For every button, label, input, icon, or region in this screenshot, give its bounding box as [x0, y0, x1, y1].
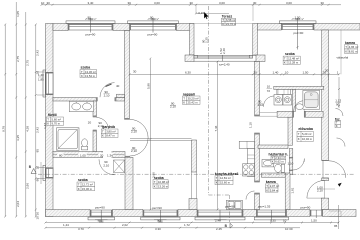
svg-text:85: 85	[35, 149, 39, 153]
svg-text:90: 90	[157, 218, 161, 222]
svg-text:13,26 m: 13,26 m	[158, 184, 169, 188]
svg-text:10: 10	[285, 70, 289, 74]
svg-text:30: 30	[47, 1, 51, 5]
kamra bottom window	[254, 210, 288, 221]
left wall	[46, 24, 54, 217]
svg-text:szoba: szoba	[78, 178, 88, 182]
svg-text:2,42: 2,42	[35, 127, 39, 133]
wall M kamra top y173	[261, 173, 285, 177]
svg-text:2,04: 2,04	[16, 201, 20, 207]
right wall	[322, 30, 329, 161]
svg-text:1,85: 1,85	[38, 77, 44, 81]
svg-text:21,70 m: 21,70 m	[226, 22, 237, 26]
svg-text:1,44: 1,44	[63, 223, 69, 227]
svg-text:30: 30	[190, 1, 194, 5]
hall opening threshold	[260, 112, 278, 116]
porch slab lines bottom right	[329, 211, 341, 217]
svg-text:40: 40	[116, 84, 120, 88]
svg-text:3,00: 3,00	[286, 1, 292, 5]
svg-text:13,52 m: 13,52 m	[85, 74, 96, 78]
left wall window upper	[43, 70, 53, 97]
svg-text:K: K	[222, 22, 224, 26]
svg-text:T: T	[345, 45, 347, 49]
door haztartasi	[293, 159, 305, 171]
furdo wc	[82, 139, 88, 150]
top dim line	[42, 4, 342, 6]
svg-text:válaszfal: válaszfal	[337, 56, 349, 60]
label bottom-mid szoba	[153, 176, 169, 189]
svg-text:5,84 m: 5,84 m	[270, 188, 279, 192]
svg-text:K: K	[272, 160, 274, 164]
interior vertical dim x217.5	[217, 61, 219, 211]
svg-text:2,40: 2,40	[222, 48, 226, 54]
svg-text:előszoba: előszoba	[298, 127, 313, 131]
terrace sliding door	[194, 55, 256, 61]
svg-text:30: 30	[254, 70, 258, 74]
door dim fractions	[88, 90, 176, 153]
kitchen counter dividers	[247, 141, 255, 159]
svg-text:12,28 m: 12,28 m	[288, 61, 299, 65]
svg-text:T: T	[78, 182, 80, 186]
sz= texts near windows	[86, 31, 311, 210]
bottom dim rows	[45, 222, 340, 229]
svg-text:30: 30	[133, 70, 137, 74]
wall L x289.3	[289, 149, 293, 175]
svg-text:10,02 m: 10,02 m	[302, 137, 313, 141]
svg-text:1,35: 1,35	[270, 218, 276, 222]
svg-text:1,10: 1,10	[288, 162, 294, 166]
svg-text:9,70 m: 9,70 m	[52, 122, 61, 126]
label top right cut room	[345, 41, 359, 54]
wall J x288	[288, 117, 293, 145]
svg-text:12,72 m²: 12,72 m²	[82, 182, 93, 186]
svg-text:2,96: 2,96	[25, 183, 29, 189]
top wall segments	[53, 24, 68, 31]
svg-text:10: 10	[41, 1, 45, 5]
svg-text:psz=90: psz=90	[225, 205, 235, 209]
svg-text:2,10: 2,10	[103, 164, 109, 168]
wall I utility/bath x292.5	[293, 89, 296, 111]
svg-text:90: 90	[88, 15, 92, 19]
window top W3	[279, 18, 316, 50]
svg-text:10: 10	[283, 218, 287, 222]
svg-text:6,30: 6,30	[185, 70, 191, 74]
kitchen counter	[239, 141, 254, 176]
svg-text:K: K	[81, 74, 83, 78]
svg-text:3,66: 3,66	[152, 172, 156, 178]
svg-text:15,60 m: 15,60 m	[220, 181, 231, 185]
svg-text:1,50: 1,50	[311, 218, 317, 222]
svg-text:25,42 m: 25,42 m	[188, 101, 199, 105]
svg-text:K: K	[47, 122, 49, 126]
svg-text:K: K	[284, 61, 286, 65]
left window outside dim marks	[37, 72, 45, 184]
svg-text:90: 90	[150, 15, 154, 19]
wall B szoba/furdo y97.5	[53, 98, 97, 102]
wall D dim texts	[58, 152, 114, 156]
svg-text:psz=90: psz=90	[294, 31, 304, 35]
svg-text:5,98: 5,98	[147, 83, 151, 89]
svg-text:10 30: 10 30	[285, 227, 293, 230]
svg-text:2,10: 2,10	[98, 124, 104, 128]
small black mark right	[338, 183, 342, 187]
label nappali	[183, 92, 201, 104]
door top-left szoba	[100, 83, 115, 98]
left wall window lower	[43, 165, 53, 180]
wall E thin double lines lower part	[130, 139, 197, 199]
label kamra	[265, 180, 279, 192]
kitchen bench bottom	[226, 200, 242, 209]
svg-text:2,45: 2,45	[216, 227, 222, 230]
svg-text:1,34: 1,34	[107, 153, 113, 157]
svg-text:1,50: 1,50	[303, 70, 309, 74]
door bottom-left szoba	[99, 159, 115, 175]
furdo double sink counter	[69, 101, 93, 111]
window top W2	[128, 18, 179, 33]
svg-text:90: 90	[98, 218, 102, 222]
wall F below terrace x254.5	[255, 62, 260, 117]
left dim lines	[4, 2, 37, 218]
door utility (from nappali nook)	[263, 96, 274, 107]
bottom kitchen window	[195, 210, 245, 221]
section marker bottom	[225, 223, 233, 228]
svg-text:30: 30	[321, 1, 325, 5]
label bottom-left szoba	[77, 178, 95, 191]
wall E konyha west x191.5	[192, 140, 197, 172]
svg-text:K: K	[78, 187, 80, 191]
door jamb blocks	[93, 98, 306, 195]
svg-text:10 30: 10 30	[35, 212, 39, 220]
haztartasi sink	[262, 160, 274, 167]
right side small arc mid	[337, 138, 346, 147]
svg-text:80: 80	[59, 153, 63, 157]
svg-text:2,10: 2,10	[258, 103, 264, 107]
svg-text:1,50: 1,50	[295, 15, 301, 19]
label konyha-etkezo	[215, 172, 239, 185]
svg-text:2,02: 2,02	[122, 223, 128, 227]
terrace bottom wall blocks	[185, 55, 194, 62]
wall D corridor bottom y151.5	[53, 152, 103, 158]
svg-text:psz=1,35: psz=1,35	[258, 205, 271, 209]
label right edge cut room	[335, 117, 341, 128]
svg-text:3,00: 3,00	[154, 1, 160, 5]
svg-text:1,40: 1,40	[273, 70, 279, 74]
svg-text:9,78: 9,78	[2, 126, 6, 132]
hall top wall y111.3	[277, 111, 294, 117]
svg-text:2,75: 2,75	[16, 56, 20, 62]
svg-text:T: T	[298, 132, 300, 136]
entrance door arc	[307, 197, 325, 199]
double doors wall A to nappali (semicircle swing)	[130, 119, 148, 156]
eaves line top right	[340, 30, 342, 74]
svg-text:20: 20	[88, 121, 92, 125]
label top-right szoba	[283, 52, 300, 64]
label top-left szoba	[80, 66, 97, 78]
right wall door upper arc	[336, 109, 344, 117]
right side dim lines	[329, 74, 340, 229]
svg-text:8,47 m: 8,47 m	[106, 134, 115, 138]
svg-text:10: 10	[267, 85, 271, 89]
svg-text:15,06 m: 15,06 m	[82, 187, 93, 191]
svg-text:K: K	[336, 124, 338, 128]
right wall door opening threshold	[322, 161, 329, 179]
wall N kamra east x285.2	[285, 173, 290, 210]
sofa / partition line nappali	[130, 138, 192, 140]
shaft near wall A	[114, 160, 125, 173]
svg-text:2,75: 2,75	[25, 60, 29, 66]
label gardrob	[101, 125, 118, 137]
svg-text:12,81 m²: 12,81 m²	[220, 176, 231, 180]
sink bathroom	[296, 104, 303, 110]
svg-text:5,20 m²: 5,20 m²	[302, 132, 312, 136]
svg-text:72: 72	[267, 89, 271, 93]
svg-text:2,40: 2,40	[215, 218, 221, 222]
svg-text:10,98 m²: 10,98 m²	[158, 180, 169, 184]
svg-text:6,62 m: 6,62 m	[275, 160, 284, 164]
label furdo	[47, 113, 64, 125]
svg-text:2,10: 2,10	[104, 93, 110, 97]
extension verticals from top line	[195, 5, 197, 14]
svg-text:2,42: 2,42	[35, 50, 39, 56]
svg-text:1,47: 1,47	[43, 123, 47, 129]
wall H top-right szoba bottom y86.3	[274, 86, 324, 89]
svg-text:psz=90: psz=90	[148, 32, 158, 36]
svg-text:psz=90: psz=90	[95, 205, 105, 209]
svg-text:K: K	[345, 49, 347, 53]
wall K haztartasi top y145	[258, 145, 288, 149]
haztartasi wc	[275, 164, 285, 172]
interior vertical dim x150	[149, 58, 151, 211]
svg-text:3,40: 3,40	[88, 1, 94, 5]
svg-text:3,70: 3,70	[78, 227, 84, 230]
bottom window B1	[88, 210, 115, 223]
svg-text:1,81: 1,81	[291, 187, 295, 193]
svg-text:4,65 m²: 4,65 m²	[349, 45, 359, 49]
svg-text:1,05: 1,05	[16, 11, 20, 17]
svg-text:3,30: 3,30	[155, 227, 161, 230]
label terasz	[222, 15, 237, 26]
terrace west wall	[190, 24, 195, 56]
svg-text:8,81 m: 8,81 m	[349, 49, 358, 53]
svg-text:7,46: 7,46	[214, 125, 218, 131]
label eloszoba	[297, 127, 313, 142]
svg-text:K: K	[183, 101, 185, 105]
svg-text:90: 90	[336, 103, 340, 107]
svg-text:4,38: 4,38	[25, 126, 29, 132]
wall A vertical x124.5	[125, 31, 130, 120]
door kamra	[246, 191, 255, 200]
svg-text:psz=90: psz=90	[301, 205, 311, 209]
svg-text:2,25: 2,25	[205, 37, 209, 43]
svg-text:30: 30	[253, 1, 257, 5]
svg-text:1,10: 1,10	[249, 122, 253, 128]
svg-text:psz=90: psz=90	[152, 206, 162, 210]
label haztartasi	[269, 153, 289, 164]
svg-text:sz=2,40: sz=2,40	[219, 63, 230, 67]
svg-text:30: 30	[325, 69, 329, 73]
svg-text:30: 30	[128, 1, 132, 5]
section marker left	[29, 165, 36, 173]
wall C furdo/gardrob x90.5	[93, 101, 97, 117]
bottom wall segments	[46, 210, 91, 217]
door furdo/gardrob	[97, 118, 109, 130]
svg-text:T: T	[154, 180, 156, 184]
bottom window B2	[141, 210, 180, 223]
svg-text:K: K	[102, 134, 104, 138]
svg-text:K: K	[266, 188, 268, 192]
svg-text:1,72: 1,72	[184, 223, 190, 227]
interior horizontal dim line y74.3	[129, 73, 341, 75]
svg-text:3,25: 3,25	[16, 135, 20, 141]
door bathroom (hall top wall)	[294, 101, 305, 112]
svg-text:-0,15: -0,15	[197, 11, 204, 15]
svg-text:K: K	[154, 184, 156, 188]
svg-text:1,05: 1,05	[80, 153, 86, 157]
svg-text:2,10: 2,10	[317, 189, 323, 193]
svg-text:95: 95	[334, 224, 338, 228]
left wall window fraction dim	[38, 73, 44, 81]
svg-text:K: K	[298, 137, 300, 141]
window top W1	[66, 18, 115, 33]
svg-text:3,00: 3,00	[219, 1, 225, 5]
furdo shower/tub	[57, 128, 80, 151]
entrance exterior opening in bottom wall	[310, 210, 323, 218]
bathtub right wing	[303, 90, 320, 109]
small window dims bottom (under windows)	[95, 219, 227, 221]
right wall door lower arc	[329, 161, 346, 178]
washer + dryer utility	[274, 89, 292, 105]
svg-text:20: 20	[100, 153, 104, 157]
svg-text:psz=90: psz=90	[86, 32, 96, 36]
terrace east wall	[253, 24, 257, 56]
